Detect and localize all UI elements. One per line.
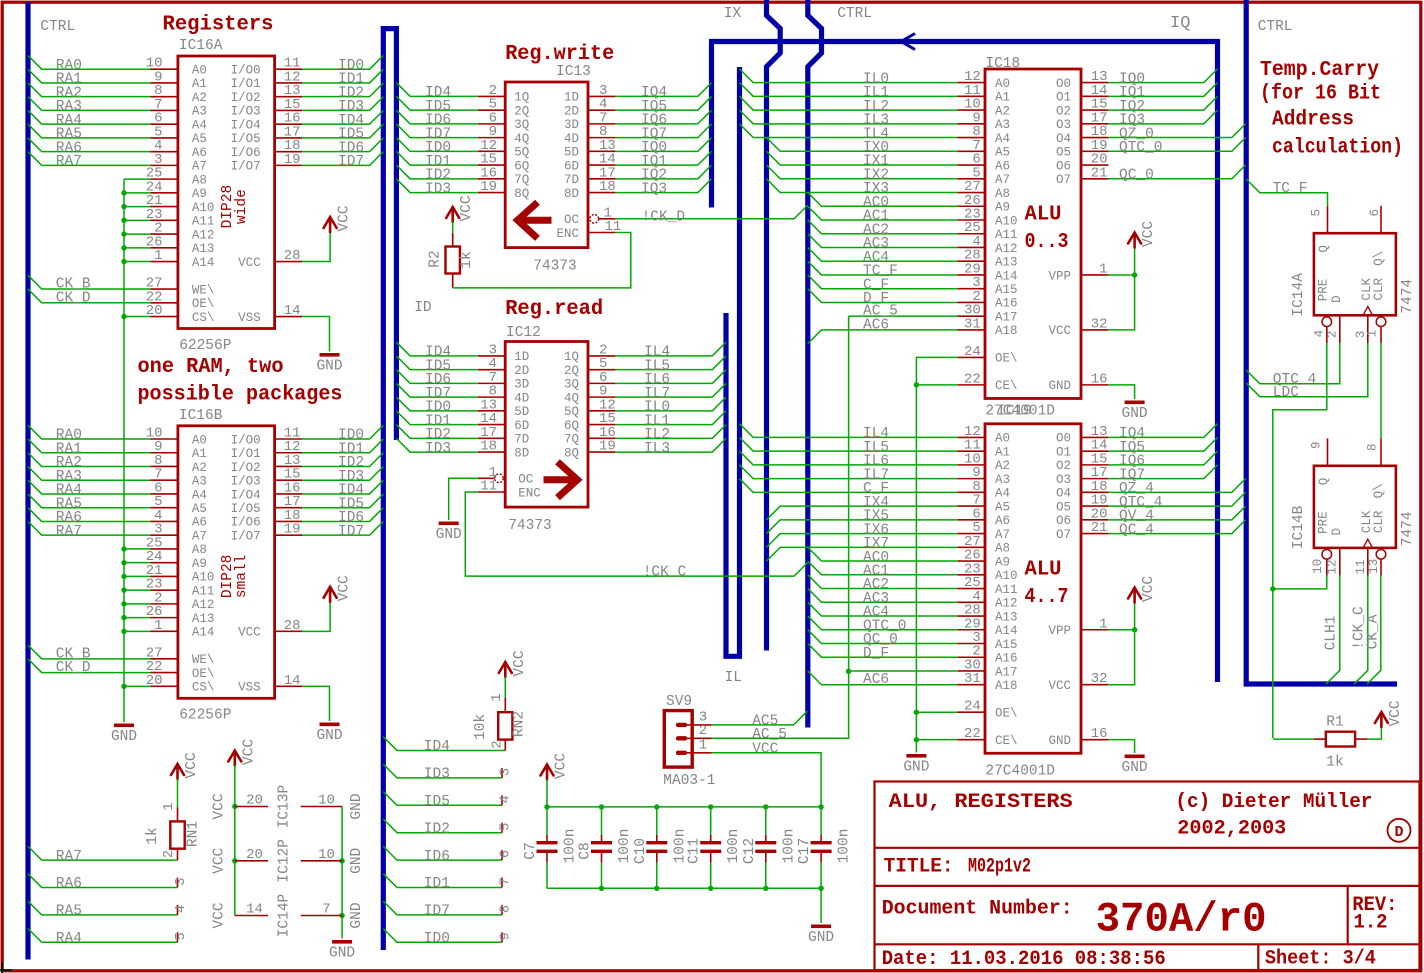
svg-text:74373: 74373 bbox=[508, 518, 552, 534]
svg-text:0..3: 0..3 bbox=[1025, 231, 1069, 254]
svg-text:ALU: ALU bbox=[1025, 204, 1062, 227]
svg-text:VCC: VCC bbox=[1388, 700, 1404, 726]
IC16B VSS wire and ground bbox=[302, 686, 330, 721]
svg-text:CE\: CE\ bbox=[995, 379, 1018, 393]
svg-text:Registers: Registers bbox=[163, 14, 274, 37]
svg-text:VSS: VSS bbox=[238, 311, 261, 325]
svg-text:ID5: ID5 bbox=[424, 794, 450, 810]
svg-text:2Q: 2Q bbox=[564, 364, 579, 378]
svg-text:5: 5 bbox=[499, 823, 514, 831]
svg-text:RA7: RA7 bbox=[56, 154, 82, 170]
pull-up net to PRE pins and R1 bbox=[1273, 343, 1327, 738]
svg-text:2: 2 bbox=[1326, 331, 1340, 339]
IC12 latch direction arrow bbox=[544, 462, 578, 498]
svg-text:10: 10 bbox=[318, 847, 335, 863]
svg-text:7D: 7D bbox=[564, 173, 579, 187]
svg-text:O7: O7 bbox=[1056, 528, 1071, 542]
VCC above RN1 bbox=[171, 764, 184, 779]
svg-text:A9: A9 bbox=[995, 201, 1010, 215]
svg-text:calculation): calculation) bbox=[1272, 137, 1403, 160]
svg-text:A7: A7 bbox=[192, 160, 207, 174]
svg-text:62256P: 62256P bbox=[179, 708, 231, 724]
capacitor C8 100n bbox=[601, 807, 603, 835]
svg-text:Date: 11.03.2016 08:38:56: Date: 11.03.2016 08:38:56 bbox=[882, 948, 1166, 971]
bus IL hairpin bbox=[726, 67, 740, 656]
svg-text:wide: wide bbox=[234, 189, 250, 224]
svg-text:Sheet: 3/4: Sheet: 3/4 bbox=[1265, 948, 1376, 971]
svg-text:O0: O0 bbox=[1056, 432, 1071, 446]
wire !CK_D from IC13 OC to AC bus bbox=[615, 205, 807, 219]
svg-text:C17: C17 bbox=[797, 838, 813, 864]
latch IC12 74373 box bbox=[505, 342, 588, 508]
svg-text:10: 10 bbox=[1311, 559, 1325, 574]
svg-text:O2: O2 bbox=[1056, 459, 1071, 473]
svg-text:ID: ID bbox=[414, 300, 431, 316]
svg-text:IC12: IC12 bbox=[506, 325, 541, 341]
svg-text:VPP: VPP bbox=[1048, 269, 1071, 283]
svg-text:IX: IX bbox=[724, 6, 742, 22]
SV9 pin 3 bbox=[676, 723, 687, 727]
svg-text:I/O1: I/O1 bbox=[231, 447, 261, 461]
svg-text:22: 22 bbox=[964, 371, 981, 387]
svg-text:I/O2: I/O2 bbox=[231, 91, 261, 105]
svg-text:100n: 100n bbox=[617, 829, 633, 864]
svg-text:CE\: CE\ bbox=[995, 734, 1018, 748]
svg-text:16: 16 bbox=[1091, 371, 1108, 387]
svg-text:VCC: VCC bbox=[512, 650, 528, 676]
svg-text:A14: A14 bbox=[995, 624, 1018, 638]
svg-text:IC16B: IC16B bbox=[179, 408, 223, 424]
IC18 OE CE pins bbox=[958, 356, 985, 358]
svg-text:A17: A17 bbox=[995, 665, 1018, 679]
svg-text:GND: GND bbox=[1122, 760, 1148, 776]
svg-text:A2: A2 bbox=[995, 459, 1010, 473]
IC14A top pins bbox=[1327, 206, 1329, 233]
svg-text:SV9: SV9 bbox=[666, 694, 692, 710]
wires IL4-IL7 C_F from IL bus to IC19 bbox=[740, 424, 958, 438]
svg-text:28: 28 bbox=[284, 618, 301, 634]
IC16A VCC wire and symbol bbox=[302, 232, 330, 262]
svg-text:1: 1 bbox=[699, 738, 707, 754]
svg-text:VCC: VCC bbox=[554, 753, 570, 779]
IC14B bottom pins bbox=[1322, 550, 1332, 560]
svg-text:4D: 4D bbox=[564, 132, 579, 146]
svg-text:3Q: 3Q bbox=[514, 118, 529, 132]
svg-text:QC_0: QC_0 bbox=[1119, 167, 1154, 183]
IC19 VPP VCC wire to VCC symbol bbox=[1108, 629, 1134, 631]
svg-text:QTC_0: QTC_0 bbox=[1119, 140, 1163, 156]
svg-text:4Q: 4Q bbox=[564, 391, 579, 405]
bus arrow on H1 bbox=[901, 34, 915, 50]
svg-text:A3: A3 bbox=[995, 473, 1010, 487]
svg-text:CLR: CLR bbox=[1372, 277, 1386, 300]
svg-text:A8: A8 bbox=[192, 173, 207, 187]
svg-text:A18: A18 bbox=[995, 324, 1018, 338]
svg-text:I/O6: I/O6 bbox=[231, 146, 261, 160]
IC13 pin rows bbox=[478, 95, 505, 97]
flip-flop IC14A box bbox=[1314, 233, 1396, 315]
svg-text:M02p1v2: M02p1v2 bbox=[968, 856, 1031, 879]
IC19 OE wire bbox=[916, 711, 957, 713]
wire QTC_4 from CTRL bus to IC14A pin2 bbox=[1246, 343, 1340, 384]
svg-text:100n: 100n bbox=[726, 829, 742, 864]
svg-text:IC16A: IC16A bbox=[179, 38, 223, 54]
IC12 pin rows bbox=[478, 355, 505, 357]
VCC rail for power gates bbox=[228, 751, 241, 766]
wires IL4-IL3 from IC12 to IL bus bbox=[615, 342, 726, 356]
IC16A power pins bbox=[275, 261, 302, 263]
svg-text:D: D bbox=[1394, 824, 1403, 841]
svg-text:OC: OC bbox=[564, 213, 579, 227]
svg-text:1: 1 bbox=[490, 693, 505, 701]
svg-text:8D: 8D bbox=[514, 446, 529, 460]
svg-text:GND: GND bbox=[316, 728, 342, 744]
IC16B VCC wire and symbol bbox=[302, 601, 330, 631]
svg-text:A6: A6 bbox=[995, 159, 1010, 173]
SV9 pin 2 bbox=[676, 736, 687, 740]
svg-text:3D: 3D bbox=[514, 378, 529, 392]
svg-text:7: 7 bbox=[322, 902, 330, 918]
svg-text:31: 31 bbox=[964, 671, 981, 687]
flip-flop IC14B box bbox=[1314, 466, 1396, 548]
wires ID0-ID7 IC16A to ID bus bbox=[302, 56, 383, 70]
svg-text:I/O2: I/O2 bbox=[231, 461, 261, 475]
svg-text:3: 3 bbox=[174, 877, 189, 885]
svg-text:1.2: 1.2 bbox=[1354, 912, 1388, 935]
svg-text:ID6: ID6 bbox=[424, 849, 450, 865]
IC18 VPP VCC GND pin stubs bbox=[1081, 274, 1108, 276]
svg-text:1: 1 bbox=[1099, 616, 1107, 632]
svg-text:IC14A: IC14A bbox=[1291, 273, 1307, 317]
svg-text:CK_A: CK_A bbox=[1366, 614, 1382, 649]
svg-text:VCC: VCC bbox=[212, 902, 228, 928]
svg-text:RN2: RN2 bbox=[511, 711, 527, 737]
svg-text:A11: A11 bbox=[192, 584, 215, 598]
svg-text:(for 16 Bit: (for 16 Bit bbox=[1260, 83, 1381, 106]
svg-text:21: 21 bbox=[1091, 520, 1108, 536]
svg-text:GND: GND bbox=[349, 848, 365, 874]
resistor network RN2 10k bbox=[498, 712, 512, 739]
svg-text:A17: A17 bbox=[995, 310, 1018, 324]
svg-text:27C4001D: 27C4001D bbox=[985, 764, 1055, 780]
svg-text:GND: GND bbox=[903, 760, 929, 776]
svg-text:VCC: VCC bbox=[212, 793, 228, 819]
svg-text:A10: A10 bbox=[995, 569, 1018, 583]
latch IC13 74373 box bbox=[505, 82, 588, 248]
CS wire IC16A bbox=[124, 316, 151, 318]
svg-text:!CK_C: !CK_C bbox=[643, 565, 687, 581]
svg-text:RA7: RA7 bbox=[56, 524, 82, 540]
wire AC_5 vertical IC18 pin30 to IC19 pin30 bbox=[849, 315, 958, 317]
wires ID4-ID3 from ID bus to IC13 bbox=[396, 83, 477, 97]
svg-text:AC6: AC6 bbox=[863, 317, 889, 333]
svg-text:A9: A9 bbox=[192, 187, 207, 201]
svg-text:14: 14 bbox=[284, 303, 301, 319]
svg-text:ALU: ALU bbox=[1025, 558, 1062, 581]
svg-text:IC13: IC13 bbox=[556, 64, 591, 80]
svg-text:CLH1: CLH1 bbox=[1324, 616, 1340, 651]
svg-text:I/O5: I/O5 bbox=[231, 132, 261, 146]
svg-text:OE\: OE\ bbox=[995, 707, 1018, 721]
svg-text:CK_D: CK_D bbox=[56, 660, 91, 676]
wire R2 to IC13 ENC bbox=[453, 233, 631, 288]
IC14B clock triangle bbox=[1363, 539, 1372, 547]
svg-text:6D: 6D bbox=[564, 159, 579, 173]
VCC above RN2 bbox=[499, 662, 512, 677]
svg-text:Reg.read: Reg.read bbox=[505, 298, 603, 321]
bus AC vertical with jog bbox=[808, 0, 822, 728]
svg-text:8Q: 8Q bbox=[564, 446, 579, 460]
wires ID column to RN2 pins bbox=[383, 737, 505, 751]
svg-text:32: 32 bbox=[1091, 671, 1108, 687]
svg-text:IC13P: IC13P bbox=[277, 785, 293, 829]
svg-text:C10: C10 bbox=[633, 838, 649, 864]
capacitor C12 100n bbox=[765, 807, 767, 835]
IC16B control pins WE OE CS bbox=[151, 658, 178, 660]
svg-text:A8: A8 bbox=[995, 187, 1010, 201]
svg-text:1: 1 bbox=[154, 248, 162, 264]
svg-text:AC6: AC6 bbox=[863, 672, 889, 688]
svg-text:7Q: 7Q bbox=[564, 433, 579, 447]
IC18 VPP VCC wire to VCC symbol bbox=[1108, 274, 1134, 276]
svg-text:GND: GND bbox=[436, 527, 462, 543]
svg-text:I/O1: I/O1 bbox=[231, 77, 261, 91]
svg-text:12: 12 bbox=[1326, 559, 1340, 574]
svg-text:24: 24 bbox=[964, 699, 981, 715]
svg-text:I/O0: I/O0 bbox=[231, 433, 261, 447]
svg-text:Q\: Q\ bbox=[1372, 251, 1386, 266]
VCC above R2 bbox=[446, 207, 459, 222]
svg-text:IC19: IC19 bbox=[997, 404, 1032, 420]
svg-text:8: 8 bbox=[499, 905, 514, 913]
svg-text:1: 1 bbox=[1365, 330, 1379, 338]
bus CTRL left vertical bbox=[25, 2, 30, 960]
svg-text:A7: A7 bbox=[995, 528, 1010, 542]
svg-text:I/O3: I/O3 bbox=[231, 105, 261, 119]
svg-text:CTRL: CTRL bbox=[1258, 19, 1293, 35]
svg-text:O4: O4 bbox=[1056, 132, 1071, 146]
svg-text:7Q: 7Q bbox=[514, 173, 529, 187]
svg-text:RN1: RN1 bbox=[186, 821, 202, 847]
svg-text:A12: A12 bbox=[192, 228, 215, 242]
svg-text:OC: OC bbox=[518, 473, 533, 487]
wires CK_B CK_D to IC16B bbox=[28, 645, 151, 659]
bus IQ vertical V1 bbox=[709, 44, 714, 208]
svg-text:O2: O2 bbox=[1056, 104, 1071, 118]
svg-text:CLR: CLR bbox=[1372, 510, 1386, 533]
svg-text:I/O6: I/O6 bbox=[231, 516, 261, 530]
svg-text:1Q: 1Q bbox=[514, 91, 529, 105]
cap rail ground bbox=[820, 888, 822, 923]
IC16A right IO pins bbox=[275, 68, 302, 70]
svg-text:OE\: OE\ bbox=[192, 667, 215, 681]
svg-text:ID0: ID0 bbox=[424, 931, 450, 947]
svg-text:C11: C11 bbox=[687, 838, 703, 864]
svg-text:100n: 100n bbox=[563, 829, 579, 864]
svg-text:2: 2 bbox=[162, 850, 177, 858]
svg-text:IL3: IL3 bbox=[644, 441, 670, 457]
R1 left wire bbox=[1273, 738, 1314, 740]
wires IL0-IL4 from IL bus to IC18 bbox=[740, 69, 958, 83]
svg-text:A8: A8 bbox=[995, 542, 1010, 556]
svg-text:C7: C7 bbox=[523, 842, 539, 859]
svg-text:A6: A6 bbox=[192, 516, 207, 530]
svg-text:10: 10 bbox=[318, 793, 335, 809]
svg-text:1k: 1k bbox=[459, 251, 475, 268]
svg-text:100n: 100n bbox=[837, 829, 853, 864]
svg-text:O6: O6 bbox=[1056, 159, 1071, 173]
wires ID4-ID3 from ID bus to IC12 bbox=[396, 342, 477, 356]
svg-text:A10: A10 bbox=[192, 201, 215, 215]
svg-text:I/O3: I/O3 bbox=[231, 475, 261, 489]
cap top rail bbox=[547, 806, 821, 808]
svg-text:A15: A15 bbox=[995, 283, 1018, 297]
svg-text:GND: GND bbox=[808, 930, 834, 946]
wires IX0-IX3 from IX bus to IC18 bbox=[767, 138, 958, 152]
svg-text:A12: A12 bbox=[995, 597, 1018, 611]
svg-text:A5: A5 bbox=[995, 146, 1010, 160]
svg-text:TC_F: TC_F bbox=[1273, 181, 1308, 197]
svg-text:LDC: LDC bbox=[1273, 385, 1299, 401]
wires CK_B CK_D to IC16A bbox=[28, 275, 151, 289]
svg-text:O5: O5 bbox=[1056, 500, 1071, 514]
svg-text:ID7: ID7 bbox=[338, 154, 364, 170]
svg-text:GND: GND bbox=[1048, 379, 1071, 393]
svg-text:6Q: 6Q bbox=[564, 419, 579, 433]
IC19 right pins O0-O7 bbox=[1081, 436, 1108, 438]
IC19 CE wire bbox=[916, 739, 957, 741]
svg-text:A13: A13 bbox=[192, 612, 215, 626]
svg-text:A11: A11 bbox=[995, 583, 1018, 597]
svg-text:A3: A3 bbox=[192, 475, 207, 489]
IC19 VPP VCC GND pin stubs bbox=[1081, 629, 1108, 631]
svg-text:RA4: RA4 bbox=[56, 931, 82, 947]
svg-text:C8: C8 bbox=[578, 842, 594, 859]
IC14B top pins bbox=[1327, 438, 1329, 465]
svg-text:CS\: CS\ bbox=[192, 681, 215, 695]
wire !CK_C from IC12 ENC to AC bus bbox=[465, 492, 808, 576]
svg-text:8Q: 8Q bbox=[514, 187, 529, 201]
svg-text:A11: A11 bbox=[192, 215, 215, 229]
resistor network RN1 1k bbox=[170, 821, 184, 848]
svg-text:2D: 2D bbox=[564, 104, 579, 118]
svg-text:OE\: OE\ bbox=[995, 352, 1018, 366]
svg-text:ID7: ID7 bbox=[424, 904, 450, 920]
svg-text:1k: 1k bbox=[145, 827, 161, 844]
IC14A clock triangle bbox=[1363, 307, 1372, 315]
svg-text:A13: A13 bbox=[192, 242, 215, 256]
svg-text:A15: A15 bbox=[995, 638, 1018, 652]
svg-text:TITLE:: TITLE: bbox=[884, 856, 954, 879]
svg-text:6Q: 6Q bbox=[514, 159, 529, 173]
svg-text:31: 31 bbox=[964, 316, 981, 332]
svg-text:D_F: D_F bbox=[863, 646, 889, 662]
svg-text:IL: IL bbox=[725, 670, 742, 686]
svg-text:O3: O3 bbox=[1056, 473, 1071, 487]
bus IQ horizontal H1 bbox=[709, 39, 1219, 44]
svg-text:3Q: 3Q bbox=[564, 378, 579, 392]
svg-text:R1: R1 bbox=[1326, 715, 1343, 731]
svg-text:14: 14 bbox=[246, 902, 263, 918]
wire LDC from CTRL bus to IC14A pin3 bbox=[1246, 343, 1368, 397]
svg-text:7474: 7474 bbox=[1400, 279, 1416, 314]
svg-text:18: 18 bbox=[599, 179, 616, 195]
svg-text:14: 14 bbox=[284, 673, 301, 689]
svg-text:WE\: WE\ bbox=[192, 283, 215, 297]
svg-text:1D: 1D bbox=[514, 350, 529, 364]
svg-text:I/O4: I/O4 bbox=[231, 118, 261, 132]
svg-text:1k: 1k bbox=[1326, 755, 1343, 771]
svg-text:A10: A10 bbox=[995, 214, 1018, 228]
svg-text:VCC: VCC bbox=[241, 739, 257, 765]
origin cross mark bbox=[0, 962, 12, 973]
VCC arrow over C7 bbox=[541, 765, 554, 780]
svg-text:19: 19 bbox=[284, 522, 301, 538]
IC18 right pins O0-O7 bbox=[1081, 82, 1108, 84]
svg-text:20: 20 bbox=[246, 793, 263, 809]
CS wire IC16B bbox=[124, 685, 151, 687]
svg-text:CS\: CS\ bbox=[192, 311, 215, 325]
svg-text:RA7: RA7 bbox=[56, 849, 82, 865]
svg-text:A1: A1 bbox=[995, 91, 1010, 105]
svg-text:19: 19 bbox=[599, 439, 616, 455]
svg-text:ENC: ENC bbox=[518, 486, 541, 500]
svg-text:possible packages: possible packages bbox=[138, 383, 343, 406]
IC16A control pins WE OE CS bbox=[151, 288, 178, 290]
svg-text:I/O4: I/O4 bbox=[231, 488, 261, 502]
svg-text:O5: O5 bbox=[1056, 146, 1071, 160]
wires RA7-RA4 to RN1 bbox=[28, 846, 178, 860]
svg-text:GND: GND bbox=[1048, 734, 1071, 748]
svg-text:A1: A1 bbox=[192, 77, 207, 91]
svg-text:GND: GND bbox=[349, 902, 365, 928]
svg-text:A5: A5 bbox=[192, 502, 207, 516]
wires AC0-AC4 TC_F C_F D_F from AC bus to IC18 bbox=[808, 193, 958, 207]
svg-text:6: 6 bbox=[1368, 209, 1382, 217]
wires IQ4-IQ3 from IC13 to IQ bus V1 bbox=[615, 83, 711, 97]
svg-text:VCC: VCC bbox=[184, 752, 200, 778]
svg-text:74373: 74373 bbox=[533, 259, 577, 275]
svg-text:8D: 8D bbox=[564, 187, 579, 201]
svg-text:11: 11 bbox=[480, 479, 497, 495]
EPROM IC18 box bbox=[985, 69, 1081, 398]
svg-text:!CK_D: !CK_D bbox=[642, 209, 686, 225]
svg-text:(c) Dieter Müller: (c) Dieter Müller bbox=[1175, 791, 1372, 814]
RAM IC16A 62256P box bbox=[178, 56, 275, 329]
svg-text:O6: O6 bbox=[1056, 514, 1071, 528]
svg-text:24: 24 bbox=[964, 344, 981, 360]
svg-text:VCC: VCC bbox=[459, 195, 475, 221]
svg-text:5D: 5D bbox=[564, 146, 579, 160]
svg-text:A16: A16 bbox=[995, 652, 1018, 666]
svg-text:ID7: ID7 bbox=[338, 524, 364, 540]
svg-text:4: 4 bbox=[174, 905, 189, 913]
svg-text:VPP: VPP bbox=[1048, 624, 1071, 638]
svg-text:A0: A0 bbox=[192, 64, 207, 78]
svg-text:A5: A5 bbox=[995, 500, 1010, 514]
svg-text:CK_D: CK_D bbox=[56, 290, 91, 306]
IC18 left pins A0-A18 bbox=[958, 82, 985, 84]
svg-text:28: 28 bbox=[284, 248, 301, 264]
svg-text:GND: GND bbox=[349, 793, 365, 819]
IC16B left address pins bbox=[151, 438, 178, 440]
IC19 OE CE pins bbox=[958, 711, 985, 713]
svg-text:A0: A0 bbox=[995, 432, 1010, 446]
svg-text:19: 19 bbox=[480, 179, 497, 195]
svg-text:1: 1 bbox=[162, 802, 177, 810]
svg-text:2D: 2D bbox=[514, 364, 529, 378]
svg-text:4Q: 4Q bbox=[514, 132, 529, 146]
